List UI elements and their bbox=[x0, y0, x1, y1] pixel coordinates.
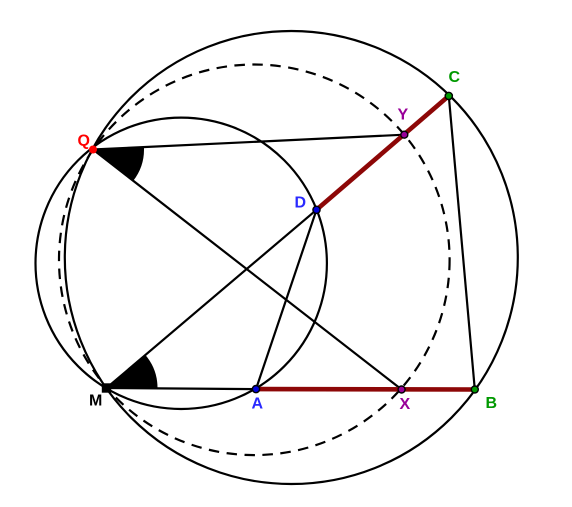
point Y bbox=[401, 131, 408, 138]
point D bbox=[313, 206, 320, 213]
small circle through M,Q,D,A bbox=[36, 118, 327, 409]
wire segment C-B bbox=[449, 96, 475, 390]
wire segment Q-X bbox=[93, 150, 402, 390]
point B bbox=[471, 386, 478, 393]
svg-text:Y: Y bbox=[398, 107, 409, 124]
dashed circle through M,Q,X,Y bbox=[59, 64, 450, 455]
angle wedge at M bbox=[107, 355, 158, 388]
point Q bbox=[89, 146, 97, 154]
svg-text:Q: Q bbox=[78, 133, 90, 150]
svg-text:D: D bbox=[295, 195, 307, 212]
wire segment Q-Y bbox=[93, 135, 404, 150]
svg-text:B: B bbox=[486, 395, 498, 412]
svg-text:X: X bbox=[400, 396, 411, 413]
point X bbox=[398, 386, 405, 393]
point A bbox=[252, 386, 259, 393]
point C bbox=[445, 92, 452, 99]
svg-text:A: A bbox=[252, 396, 264, 413]
angle wedge at Q bbox=[93, 147, 144, 181]
wire segment D-A bbox=[256, 210, 317, 389]
big circle through M,Q,C,B bbox=[65, 31, 518, 484]
wire segment M-D bbox=[107, 210, 317, 388]
wire segment M-A bbox=[107, 388, 257, 389]
thick segment A-B bbox=[256, 387, 475, 392]
thick segment D-C bbox=[317, 96, 449, 210]
point M bbox=[102, 383, 111, 392]
svg-text:C: C bbox=[449, 69, 461, 86]
svg-text:M: M bbox=[89, 393, 102, 410]
